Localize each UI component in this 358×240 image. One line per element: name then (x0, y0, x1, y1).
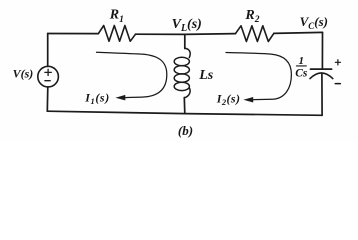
wire node VL to R2 (185, 33, 236, 36)
svg-text:I2(s): I2(s) (216, 91, 241, 106)
wire left side above source (47, 34, 49, 67)
wire right side below capacitor (321, 73, 323, 115)
loop current I1 arrowhead (115, 95, 125, 101)
loop current I1 arrow (97, 52, 167, 97)
loop current I2 arrow (226, 53, 291, 100)
capacitor value label 1/Cs (295, 55, 308, 79)
wire top-left segment (48, 33, 99, 35)
wire bottom left segment (47, 111, 185, 113)
inductor Ls coil (174, 48, 190, 98)
svg-text:VC(s): VC(s) (300, 14, 328, 31)
svg-text:V(s): V(s) (13, 67, 34, 81)
svg-text:Ls: Ls (198, 68, 214, 83)
wire right side above capacitor (321, 32, 323, 68)
wire inductor top stub (184, 34, 186, 48)
voltage source minus sign (45, 80, 50, 82)
svg-text:R1: R1 (109, 8, 124, 25)
svg-text:R2: R2 (244, 8, 259, 25)
voltage source plus sign (45, 69, 51, 75)
resistor R1 (98, 26, 135, 42)
loop current I2 arrowhead (243, 97, 253, 103)
voltage source V(s) (38, 66, 59, 87)
resistor R2 (236, 26, 274, 42)
svg-text:(b): (b) (178, 123, 193, 138)
capacitor plus polarity (335, 60, 340, 65)
wire R2 to top-right corner (274, 32, 323, 33)
capacitor C top plate (311, 68, 332, 70)
wire bottom right segment (185, 114, 322, 116)
wire inductor bottom stub (183, 98, 186, 114)
svg-text:Cs: Cs (295, 68, 308, 80)
capacitor minus polarity (335, 83, 340, 85)
svg-text:VL(s): VL(s) (172, 17, 202, 34)
wire top-middle segment (R1 to node VL) (136, 33, 185, 35)
capacitor C curved plate (310, 73, 333, 79)
wire left side below source (46, 87, 49, 111)
svg-text:I1(s): I1(s) (84, 91, 110, 106)
